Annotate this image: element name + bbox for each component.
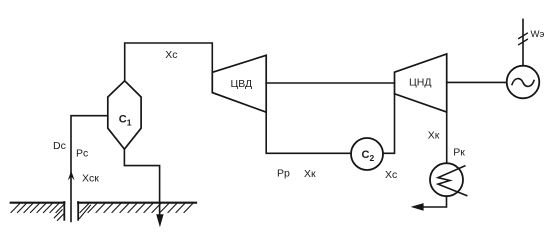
ground left block hatching [11,204,64,213]
wire: well riser pipe [71,116,108,222]
flow arrow down (brine reinjection) [156,214,163,227]
break slash 1 on output [519,33,528,38]
svg-text:Хс: Хс [385,169,397,181]
svg-text:Dс: Dс [53,140,66,152]
wire: LP turbine shaft to generator [447,81,507,83]
condenser cooling zigzag [438,166,467,196]
wire: C1 steam to HP turbine [125,43,213,81]
svg-text:Хк: Хк [304,168,316,180]
well bore wall left [63,202,65,220]
flow arrow up on riser [68,171,75,181]
ground right block hatching [80,204,193,213]
ground left block surface line [11,202,65,204]
wire: LP exhaust down to condenser [446,112,448,163]
condenser (circle) [430,163,463,196]
svg-text:Рс: Рс [76,148,88,160]
hatching along right bore wall [80,205,91,218]
turbine HP cylinder ЦВД [212,55,266,112]
svg-text:ЦВД: ЦВД [231,78,253,90]
generator sine symbol [512,79,534,87]
wire: HP drain down to C2 [266,112,351,153]
wire: condensate out of condenser [421,196,447,207]
svg-text:Хс: Хс [165,49,177,61]
wire: HP exhaust to LP turbine [266,82,394,84]
svg-text:ЦНД: ЦНД [409,76,431,88]
wire: generator electrical output [522,19,524,65]
svg-text:Рр: Рр [277,167,290,179]
svg-text:Рк: Рк [453,147,465,159]
turbine LP cylinder ЦНД [395,54,447,112]
generator G (circle with sine) [507,66,540,99]
break slash 2 on output [519,39,528,44]
svg-text:Wэ: Wэ [531,29,545,40]
wire: C1 brine drain down [124,149,159,216]
wire: C2 steam up to LP turbine [383,94,395,154]
flow arrow left (condensate) [411,203,424,211]
ground right block surface line [78,202,196,204]
svg-text:С1: С1 [119,114,132,128]
well bore wall right [77,202,79,220]
svg-text:С2: С2 [362,149,375,163]
separator C2 (circle) [351,138,383,170]
svg-text:Хк: Хк [428,130,440,142]
hatching along left bore wall [54,210,64,221]
svg-text:Хск: Хск [82,173,99,185]
separator C1 (hexagon) [108,81,141,149]
